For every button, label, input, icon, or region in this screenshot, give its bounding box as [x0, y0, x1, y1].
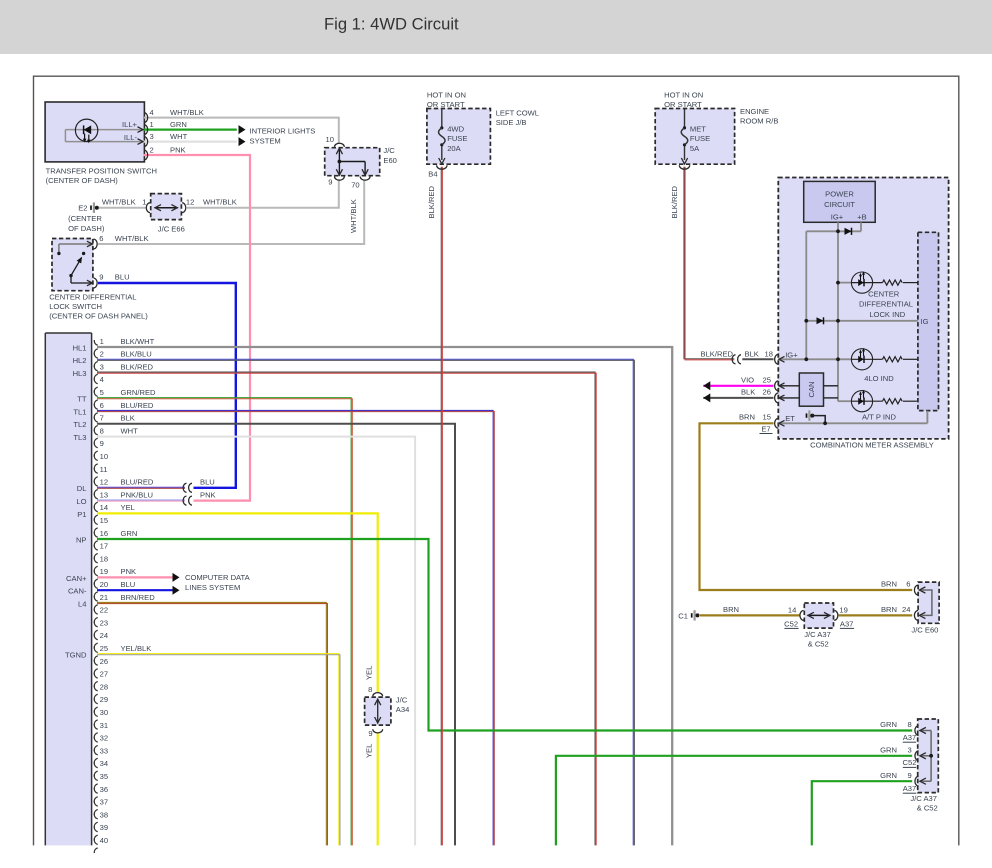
svg-text:70: 70: [351, 180, 359, 189]
svg-text:38: 38: [100, 810, 108, 819]
svg-text:J/C: J/C: [396, 696, 408, 705]
svg-text:P1: P1: [77, 510, 86, 519]
svg-text:3: 3: [907, 746, 911, 755]
svg-text:8: 8: [368, 685, 372, 694]
svg-text:OF DASH): OF DASH): [68, 224, 105, 233]
svg-text:1: 1: [150, 120, 154, 129]
svg-text:VIO: VIO: [741, 375, 754, 384]
svg-text:ILL-: ILL-: [124, 133, 138, 142]
svg-text:16: 16: [100, 529, 108, 538]
svg-text:19: 19: [100, 567, 108, 576]
svg-text:GRN: GRN: [880, 771, 897, 780]
svg-text:NP: NP: [76, 535, 87, 544]
svg-text:26: 26: [100, 657, 108, 666]
svg-text:E60: E60: [383, 156, 397, 165]
svg-text:3: 3: [100, 362, 104, 371]
svg-text:8: 8: [100, 426, 104, 435]
svg-text:C1: C1: [678, 611, 688, 620]
svg-text:ILL+: ILL+: [122, 120, 138, 129]
svg-text:WHT: WHT: [170, 132, 188, 141]
svg-text:2: 2: [100, 350, 104, 359]
svg-text:CENTER: CENTER: [868, 289, 900, 298]
svg-text:BLK: BLK: [741, 387, 755, 396]
svg-text:SYSTEM: SYSTEM: [250, 136, 281, 145]
svg-text:GRN/RED: GRN/RED: [121, 388, 157, 397]
svg-text:31: 31: [100, 721, 108, 730]
svg-text:& C52: & C52: [917, 803, 938, 812]
svg-text:20: 20: [100, 580, 108, 589]
svg-text:J/C E66: J/C E66: [158, 224, 185, 233]
svg-text:36: 36: [100, 785, 108, 794]
svg-text:GRN: GRN: [121, 529, 138, 538]
svg-text:BLK: BLK: [121, 414, 135, 423]
svg-text:IG: IG: [921, 317, 929, 326]
svg-text:BLK/RED: BLK/RED: [701, 349, 734, 358]
svg-text:6: 6: [99, 234, 103, 243]
svg-text:L4: L4: [78, 599, 86, 608]
svg-text:E2: E2: [78, 203, 87, 212]
svg-text:4: 4: [150, 108, 154, 117]
svg-text:COMPUTER DATA: COMPUTER DATA: [185, 573, 251, 582]
svg-text:LOCK SWITCH: LOCK SWITCH: [49, 302, 102, 311]
svg-text:CAN-: CAN-: [68, 587, 87, 596]
svg-text:BLU/RED: BLU/RED: [121, 401, 154, 410]
svg-text:2: 2: [150, 145, 154, 154]
svg-text:LO: LO: [76, 497, 86, 506]
svg-text:7: 7: [100, 414, 104, 423]
svg-text:A37: A37: [840, 619, 854, 628]
svg-text:20A: 20A: [447, 144, 461, 153]
svg-text:J/C E60: J/C E60: [911, 626, 938, 635]
svg-text:BLK/WHT: BLK/WHT: [121, 337, 155, 346]
svg-text:WHT/BLK: WHT/BLK: [115, 234, 149, 243]
svg-text:BLK/RED: BLK/RED: [670, 185, 679, 218]
svg-text:LOCK IND: LOCK IND: [869, 310, 905, 319]
svg-text:GRN: GRN: [170, 120, 187, 129]
svg-text:J/C A37: J/C A37: [804, 630, 831, 639]
svg-text:10: 10: [100, 452, 108, 461]
svg-text:A37: A37: [903, 784, 917, 793]
svg-text:25: 25: [100, 644, 108, 653]
svg-text:14: 14: [788, 606, 796, 615]
svg-text:34: 34: [100, 759, 108, 768]
svg-text:24: 24: [902, 605, 910, 614]
svg-text:YEL: YEL: [364, 744, 373, 758]
svg-text:BRN: BRN: [723, 605, 739, 614]
svg-text:WHT/BLK: WHT/BLK: [203, 198, 237, 207]
svg-text:TL3: TL3: [73, 433, 86, 442]
svg-text:A37: A37: [903, 733, 917, 742]
svg-text:OR START: OR START: [427, 100, 465, 109]
svg-text:DIFFERENTIAL: DIFFERENTIAL: [859, 300, 913, 309]
svg-text:CENTER DIFFERENTIAL: CENTER DIFFERENTIAL: [49, 293, 136, 302]
svg-text:35: 35: [100, 772, 108, 781]
svg-text:INTERIOR LIGHTS: INTERIOR LIGHTS: [250, 126, 316, 135]
svg-text:J/C: J/C: [383, 146, 395, 155]
svg-text:5A: 5A: [690, 144, 700, 153]
svg-text:15: 15: [763, 412, 771, 421]
svg-text:TL2: TL2: [73, 420, 86, 429]
svg-text:COMBINATION METER ASSEMBLY: COMBINATION METER ASSEMBLY: [810, 441, 934, 450]
svg-text:BLK: BLK: [745, 349, 759, 358]
svg-text:Fig 1: 4WD Circuit: Fig 1: 4WD Circuit: [324, 15, 459, 34]
svg-text:BLU: BLU: [115, 273, 130, 282]
svg-text:A/T P IND: A/T P IND: [862, 412, 896, 421]
svg-text:HL3: HL3: [73, 369, 87, 378]
svg-text:37: 37: [100, 798, 108, 807]
svg-text:C52: C52: [784, 619, 798, 628]
svg-text:CAN: CAN: [807, 381, 816, 397]
svg-text:OR START: OR START: [664, 100, 702, 109]
svg-text:25: 25: [763, 375, 771, 384]
svg-text:3: 3: [150, 132, 154, 141]
svg-text:30: 30: [100, 708, 108, 717]
svg-text:YEL: YEL: [121, 503, 135, 512]
svg-text:6: 6: [906, 579, 910, 588]
svg-text:BLK/RED: BLK/RED: [427, 185, 436, 218]
svg-text:HOT IN ON: HOT IN ON: [664, 91, 703, 100]
svg-text:IG+: IG+: [785, 350, 798, 359]
svg-text:BRN: BRN: [881, 605, 897, 614]
svg-text:DL: DL: [77, 484, 87, 493]
svg-text:E7: E7: [761, 425, 770, 434]
svg-text:LINES SYSTEM: LINES SYSTEM: [185, 583, 240, 592]
svg-text:BLU/RED: BLU/RED: [121, 478, 154, 487]
svg-text:HL2: HL2: [73, 356, 87, 365]
svg-text:(CENTER OF DASH PANEL): (CENTER OF DASH PANEL): [49, 312, 148, 321]
svg-text:FUSE: FUSE: [690, 134, 710, 143]
svg-text:9: 9: [99, 273, 103, 282]
svg-text:PNK: PNK: [200, 491, 216, 500]
svg-text:19: 19: [839, 606, 847, 615]
svg-text:8: 8: [907, 720, 911, 729]
svg-text:23: 23: [100, 618, 108, 627]
svg-text:FUSE: FUSE: [447, 134, 467, 143]
svg-text:22: 22: [100, 606, 108, 615]
svg-text:BRN: BRN: [739, 412, 755, 421]
svg-text:HL1: HL1: [73, 343, 87, 352]
svg-text:BLU: BLU: [200, 478, 215, 487]
svg-text:+B: +B: [857, 213, 867, 222]
svg-text:BLK/BLU: BLK/BLU: [121, 350, 152, 359]
svg-text:J/C A37: J/C A37: [910, 794, 937, 803]
svg-text:MET: MET: [690, 125, 706, 134]
svg-text:B4: B4: [428, 170, 437, 179]
svg-text:12: 12: [186, 198, 194, 207]
svg-text:TL1: TL1: [73, 407, 86, 416]
svg-text:ROOM R/B: ROOM R/B: [740, 117, 778, 126]
svg-text:28: 28: [100, 682, 108, 691]
svg-text:& C52: & C52: [808, 639, 829, 648]
svg-text:39: 39: [100, 823, 108, 832]
svg-text:WHT: WHT: [121, 426, 139, 435]
svg-text:1: 1: [100, 337, 104, 346]
svg-text:18: 18: [100, 554, 108, 563]
svg-text:WHT/BLK: WHT/BLK: [349, 199, 358, 233]
svg-text:24: 24: [100, 631, 108, 640]
svg-text:21: 21: [100, 593, 108, 602]
svg-text:BLK/RED: BLK/RED: [121, 362, 154, 371]
svg-text:YEL/BLK: YEL/BLK: [121, 644, 152, 653]
svg-text:CAN+: CAN+: [66, 574, 87, 583]
svg-text:TGND: TGND: [65, 651, 87, 660]
svg-text:PNK/BLU: PNK/BLU: [121, 490, 154, 499]
svg-text:6: 6: [100, 401, 104, 410]
svg-text:18: 18: [765, 349, 773, 358]
svg-text:GRN: GRN: [880, 746, 897, 755]
svg-text:32: 32: [100, 734, 108, 743]
svg-text:POWER: POWER: [825, 190, 854, 199]
svg-text:GRN: GRN: [880, 720, 897, 729]
svg-text:PNK: PNK: [170, 145, 186, 154]
svg-text:13: 13: [100, 490, 108, 499]
svg-text:4: 4: [100, 375, 104, 384]
svg-text:WHT/BLK: WHT/BLK: [102, 198, 136, 207]
svg-text:WHT/BLK: WHT/BLK: [170, 108, 204, 117]
svg-text:C52: C52: [903, 758, 917, 767]
svg-text:10: 10: [326, 135, 334, 144]
svg-text:YEL: YEL: [364, 666, 373, 680]
svg-text:ENGINE: ENGINE: [740, 107, 769, 116]
svg-text:9: 9: [100, 439, 104, 448]
svg-text:9: 9: [328, 178, 332, 187]
svg-text:4LO IND: 4LO IND: [864, 374, 894, 383]
svg-text:11: 11: [100, 465, 108, 474]
svg-text:LEFT COWL: LEFT COWL: [496, 108, 539, 117]
svg-text:40: 40: [100, 836, 108, 845]
svg-text:33: 33: [100, 746, 108, 755]
svg-text:5: 5: [100, 388, 104, 397]
svg-text:1: 1: [142, 198, 146, 207]
svg-text:9: 9: [368, 729, 372, 738]
svg-text:A34: A34: [396, 705, 410, 714]
svg-text:29: 29: [100, 695, 108, 704]
svg-text:BRN: BRN: [881, 579, 897, 588]
svg-text:BRN/RED: BRN/RED: [121, 593, 156, 602]
svg-text:HOT IN ON: HOT IN ON: [427, 91, 466, 100]
svg-text:27: 27: [100, 670, 108, 679]
svg-text:CIRCUIT: CIRCUIT: [824, 200, 855, 209]
svg-text:14: 14: [100, 503, 108, 512]
svg-text:4WD: 4WD: [447, 125, 464, 134]
svg-text:15: 15: [100, 516, 108, 525]
svg-text:ET: ET: [785, 414, 795, 423]
svg-text:SIDE J/B: SIDE J/B: [496, 118, 527, 127]
svg-text:TRANSFER POSITION SWITCH: TRANSFER POSITION SWITCH: [46, 166, 157, 175]
svg-text:17: 17: [100, 542, 108, 551]
svg-text:BLU: BLU: [121, 580, 136, 589]
svg-text:PNK: PNK: [121, 567, 137, 576]
svg-text:TT: TT: [77, 395, 87, 404]
svg-text:26: 26: [763, 387, 771, 396]
svg-text:12: 12: [100, 478, 108, 487]
svg-text:IG+: IG+: [831, 213, 844, 222]
svg-text:(CENTER OF DASH): (CENTER OF DASH): [46, 176, 119, 185]
svg-text:(CENTER: (CENTER: [68, 214, 102, 223]
svg-text:9: 9: [907, 771, 911, 780]
